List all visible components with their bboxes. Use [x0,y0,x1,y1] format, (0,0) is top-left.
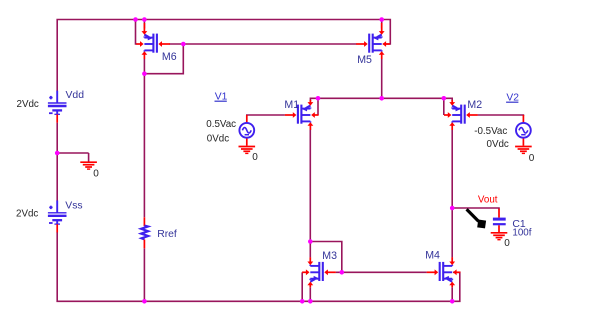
junction M3 gate node [340,270,345,275]
value 2Vdc (Vss) [16,209,38,220]
wire M2 drain column down to M4 (output) [451,130,453,257]
svg-text:M3: M3 [322,250,337,262]
svg-text:0: 0 [529,153,535,164]
dc source Vdd 2Vdc [48,91,67,123]
net label Vout [478,195,498,206]
wire M1 bulk drop [317,98,319,115]
svg-text:0Vdc: 0Vdc [207,134,229,145]
svg-text:Rref: Rref [157,229,177,240]
wire V2 to M2 gate [478,115,524,116]
capacitor C1 100f [493,209,506,233]
ac source V1 [239,115,254,146]
nmos transistor M3 (mirror, diode-connected) [302,257,336,287]
junction node Vout [450,206,455,211]
svg-text:0: 0 [252,152,258,163]
junction M6 gate node [181,42,186,47]
value 2Vdc (Vdd) [17,99,39,110]
wire ground tap from left column [57,152,88,154]
junction M5 drain on tail [379,96,384,101]
svg-text:0: 0 [93,169,99,180]
junction ground tap on left column [55,151,60,156]
junction M6 bulk on VDD rail [133,17,138,22]
resistor Rref [141,217,148,248]
wire M3 source to rail [309,287,311,301]
label M2 [467,99,482,111]
label M5 [357,54,372,66]
wire M4 source to rail [451,287,453,301]
ground 0 near Vdd/Vss tap [80,153,97,169]
svg-text:M6: M6 [162,51,177,63]
svg-text:Vss: Vss [65,201,82,212]
junction M5 source on VDD rail [379,17,384,22]
junction M3 gate loop on drain column [308,239,313,244]
wire VDD top rail with M5 bulk loop and left drop to Vdd [57,20,390,92]
voltage probe marker at Vout [467,209,487,228]
wire M6 drain column down through Rref to bottom rail (upper part) [143,59,145,217]
wire M1 drain column down to M3 [309,130,311,257]
value 0Vdc (V1) [207,134,229,145]
label 0 (V2 ground) [529,153,535,164]
value 100f (C1) [512,228,531,239]
svg-text:0Vdc: 0Vdc [487,139,509,150]
dc source Vss 2Vdc [48,201,67,233]
ac source V2 [516,115,531,146]
svg-text:M4: M4 [425,249,440,261]
junction M3 source on bottom rail [308,299,313,304]
wire M6 bulk drop from rail [136,20,137,45]
wire M3 diode connection loop [310,242,342,273]
ground 0 under V1 [239,147,256,154]
junction M6 drain on VDD rail [142,17,147,22]
value -0.5Vac (V2) [474,126,507,137]
wire left column between Vdd and Vss [56,123,58,201]
label V2 underlined [506,93,519,104]
ground 0 under C1 [491,233,508,240]
value 0.5Vac (V1) [206,119,236,130]
svg-text:Vdd: Vdd [66,90,85,101]
junction Rref on bottom rail [142,299,147,304]
svg-text:-0.5Vac: -0.5Vac [474,126,507,137]
label M4 [425,249,440,261]
label V1 underlined [215,92,228,103]
svg-text:M1: M1 [284,99,299,111]
junction M6 drain / bias node [142,71,147,76]
label 0 (C1 ground) [504,238,510,249]
svg-text:2Vdc: 2Vdc [17,99,39,110]
wire M2 bulk drop [443,98,445,115]
junction M4 source on bottom rail [450,299,455,304]
pmos transistor M5 (tail current mirror) [356,23,390,59]
label Vdd [66,90,85,101]
pmos transistor M6 (diode-connected bias) [136,23,170,59]
svg-text:0.5Vac: 0.5Vac [206,119,236,130]
wire M6 diode connection loop [144,44,183,74]
nmos transistor M4 (mirror output) [427,257,461,287]
junction M2 source/bulk on tail [442,96,447,101]
wire Rref bottom to rail [143,248,145,301]
wire Vout node to C1 [452,208,499,210]
svg-text:0: 0 [504,238,510,249]
label 0 (tap ground) [93,169,99,180]
wire M5 top pin to rail [381,20,383,29]
wire M5 drain down to tail node [381,59,383,98]
label Rref [157,229,177,240]
junction M1 source/bulk on tail [316,96,321,101]
wire differential pair tail [310,98,452,101]
wire M6 top pin to rail [143,20,145,29]
wire VSS bottom rail with M4 bulk loop [57,232,460,301]
svg-text:M2: M2 [467,99,482,111]
pmos transistor M1 (input pair left) [285,100,319,130]
label M6 [162,51,177,63]
wire gate bus M6 to M5 [169,43,356,45]
junction M3 bulk on bottom rail [300,299,305,304]
wire V1 to M1 gate [247,115,285,116]
label M1 [284,99,299,111]
wire M3 bulk column to rail [301,272,303,301]
label C1 [512,219,526,230]
pmos transistor M2 (input pair right) [444,100,478,130]
svg-text:100f: 100f [512,228,531,239]
svg-text:Vout: Vout [478,195,498,206]
label 0 (V1 ground) [252,152,258,163]
svg-text:2Vdc: 2Vdc [16,209,38,220]
label Vss [65,201,82,212]
label M3 [322,250,337,262]
svg-text:M5: M5 [357,54,372,66]
ground 0 under V2 [515,147,532,154]
value 0Vdc (V2) [487,139,509,150]
wire gate bus M3 to M4 [336,271,427,273]
